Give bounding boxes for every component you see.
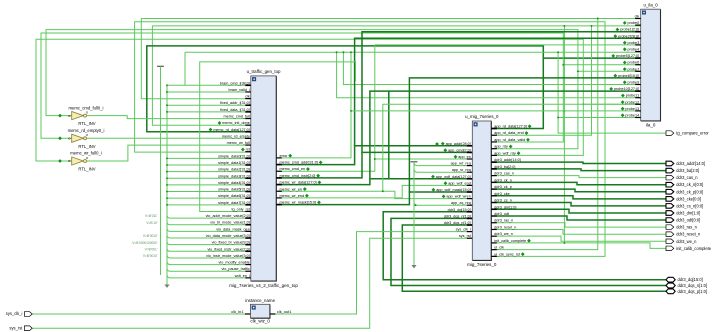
svg-text:memc_cmd_full: memc_cmd_full xyxy=(224,115,250,119)
wire traffic input row 17 xyxy=(167,197,245,199)
svg-text:vio_instr_mode_value[3:0]: vio_instr_mode_value[3:0] xyxy=(206,254,250,258)
svg-text:V=B’0000100000’: V=B’0000100000’ xyxy=(132,241,158,245)
input port sys_clk_i xyxy=(24,312,32,317)
svg-text:V=B’0010’: V=B’0010’ xyxy=(143,254,158,258)
wire traffic input row 25 xyxy=(167,248,170,251)
output port ddr3_cs_n[0:0] xyxy=(666,204,674,209)
pin mig.sys_rst xyxy=(467,237,473,239)
pin mig.app_rd_data_valid xyxy=(491,141,497,143)
pin traffic.simple_data2[31:0] xyxy=(245,171,251,173)
wire net ui_clk_sync_rst: mig -> top -> traffic.rst, branch probe14 xyxy=(135,22,605,257)
svg-text:memc_wr_data[127:0]: memc_wr_data[127:0] xyxy=(280,181,317,185)
output port ddr3_cas_n xyxy=(666,175,674,180)
svg-text:probe4: probe4 xyxy=(628,48,640,52)
pin mig.ddr3_odt xyxy=(491,215,497,217)
wire ddr3 output 3 xyxy=(491,182,666,184)
svg-text:app_wdf_data[127:0]: app_wdf_data[127:0] xyxy=(436,175,471,179)
pin mig.app_wdf_data[127:0] xyxy=(467,178,473,180)
output port tg_compare_error xyxy=(666,131,674,136)
svg-text:app_cmd[2:0]: app_cmd[2:0] xyxy=(448,148,471,152)
wire drop riser to probe11 xyxy=(337,52,641,97)
svg-text:probe7: probe7 xyxy=(628,67,640,71)
svg-text:bram_valid_i: bram_valid_i xyxy=(229,88,250,92)
svg-text:ui_clk_sync_rst: ui_clk_sync_rst xyxy=(494,252,521,256)
pin mig.app_wdf_mask[15:0] xyxy=(467,191,473,193)
pin traffic.memc_wr_mask[15:0] xyxy=(276,204,282,206)
pin ila.probe2[28:0] xyxy=(635,37,641,39)
pin mig.ddr3_dq[15:0] xyxy=(467,211,473,213)
wire net memc_cmd_instr bus -> app_cmd, probe1 xyxy=(276,32,640,178)
svg-text:app_wdf_rdy: app_wdf_rdy xyxy=(494,151,516,155)
pin traffic.vio_bl_mode_value[1:0] xyxy=(245,224,251,226)
wire net memc_wr_mask bus -> app_wdf_mask, probe8 xyxy=(276,78,640,205)
wire net memc_wr_data bus -> app_wdf_data, probe10 xyxy=(276,91,640,184)
pin mig.ui_clk xyxy=(491,249,497,251)
svg-text:ddr3_cas_n: ddr3_cas_n xyxy=(494,172,514,176)
inverter RTL_INV memc_cmd_full0_i xyxy=(72,112,84,120)
pin traffic.memc_init_done xyxy=(245,124,251,126)
tie-off trunk for app_ref_req/app_sr_req/app_zq_req xyxy=(411,161,418,163)
tie-off arrow below trunk xyxy=(164,285,169,288)
svg-text:u_mig_7series_0: u_mig_7series_0 xyxy=(465,114,499,119)
svg-text:probe2[28:0]: probe2[28:0] xyxy=(618,34,639,38)
pin mig.app_rd_data_end xyxy=(491,134,497,136)
svg-text:ddr3_cke: ddr3_cke xyxy=(494,192,509,196)
wire stub drop at left end of error row xyxy=(184,52,186,85)
pin traffic.vio_instr_mode_value[3:0] xyxy=(245,257,251,259)
wire traffic input row 21 xyxy=(167,222,170,225)
svg-text:bram_cmd_i[38:0]: bram_cmd_i[38:0] xyxy=(220,81,250,85)
svg-text:memc_cmd_en: memc_cmd_en xyxy=(280,167,306,171)
wire ddr3 output 1 xyxy=(491,169,666,171)
wire riser to tg_compare_error and probe14 xyxy=(558,52,666,133)
output port ddr3_dm[1:0] xyxy=(666,211,674,216)
svg-text:ddr3_cke[0:0]: ddr3_cke[0:0] xyxy=(676,196,701,201)
pin mig.app_sr_req xyxy=(467,171,473,173)
svg-text:vio_modify_enable: vio_modify_enable xyxy=(219,261,250,265)
pin mig.app_cmd[2:0] xyxy=(467,151,473,153)
wire ddr3 output 2 xyxy=(491,176,666,178)
wire traffic input row 16 xyxy=(167,191,245,193)
svg-text:init_calib_complete: init_calib_complete xyxy=(494,239,526,243)
svg-text:app_wdf_wren: app_wdf_wren xyxy=(446,195,470,199)
wire net memc_cmd_addr bus -> app_addr, probe2 xyxy=(276,38,640,164)
svg-text:u_traffic_gen_top: u_traffic_gen_top xyxy=(247,69,281,74)
svg-text:ddr3_reset_n: ddr3_reset_n xyxy=(494,225,516,229)
inout port ddr3_dqs_n[1:0] xyxy=(666,283,675,288)
wire net sys_rst port -> mig.sys_rst xyxy=(32,238,472,328)
pin ila.probe13 xyxy=(635,110,641,112)
inout port ddr3_dqs_p[1:0] xyxy=(666,289,675,294)
pin traffic.memc_cmd_instr[2:0] xyxy=(276,177,282,179)
wire traffic input row 3 xyxy=(167,104,245,106)
svg-text:probe3: probe3 xyxy=(628,41,640,45)
input port sys_rst xyxy=(24,326,32,331)
svg-text:ddr3_cs_n: ddr3_cs_n xyxy=(494,199,512,203)
pin mig.ddr3_ras_n xyxy=(491,222,497,224)
output port ddr3_ck_n[0:0] xyxy=(666,182,674,187)
svg-text:ddr3_ck_p[0:0]: ddr3_ck_p[0:0] xyxy=(676,189,703,194)
wire inverter1 output -> traffic.memc_cmd_full xyxy=(87,116,251,119)
pin mig.app_zq_req xyxy=(467,204,473,206)
svg-text:ddr3_dm[1:0]: ddr3_dm[1:0] xyxy=(676,210,700,215)
wire traffic input row 28 xyxy=(167,268,170,271)
svg-text:ddr3_addr[14:0]: ddr3_addr[14:0] xyxy=(676,161,705,166)
wire net clk_out1 -> mig.sys_clk_i xyxy=(274,232,472,314)
wire traffic input row 24 xyxy=(167,242,170,245)
block u_ila_0 body xyxy=(641,9,661,121)
block u_ila_0 icon xyxy=(642,11,646,15)
svg-text:tg_compare_error: tg_compare_error xyxy=(676,131,709,136)
svg-text:app_ref_req: app_ref_req xyxy=(451,162,471,166)
svg-text:memc_wr_end: memc_wr_end xyxy=(280,194,305,198)
pin traffic.memc_rd_data[127:0] xyxy=(245,131,251,133)
svg-text:sys_clk_i: sys_clk_i xyxy=(6,311,23,316)
svg-text:vio_fixed_bl_value[9:0]: vio_fixed_bl_value[9:0] xyxy=(212,241,250,245)
svg-text:memc_wr_full: memc_wr_full xyxy=(227,141,250,145)
svg-text:ddr3_dqs_n[1:0]: ddr3_dqs_n[1:0] xyxy=(678,283,708,288)
svg-text:vio_addr_mode_value[2:0]: vio_addr_mode_value[2:0] xyxy=(206,214,250,218)
pin traffic.memc_cmd_addr[31:0] xyxy=(276,164,282,166)
svg-text:ddr3_cs_n[0:0]: ddr3_cs_n[0:0] xyxy=(676,203,703,208)
pin ila.probe0 xyxy=(635,24,641,26)
pin traffic.error xyxy=(276,157,282,159)
pin mig.app_wdf_rdy xyxy=(491,154,497,156)
pin mig.ddr3_addr[14:0] xyxy=(491,161,497,163)
svg-text:ddr3_ck_n: ddr3_ck_n xyxy=(494,178,512,182)
svg-text:I0: I0 xyxy=(68,114,71,118)
block u_traffic_gen_top body xyxy=(251,76,276,281)
pin traffic.simple_data0[31:0] xyxy=(245,157,251,159)
svg-text:clk: clk xyxy=(245,95,250,99)
wire net sys_clk_i port -> clk_wiz.clk_in1 xyxy=(32,313,246,315)
pin traffic.simple_data3[31:0] xyxy=(245,177,251,179)
tie-off constant trunk left of traffic block xyxy=(157,65,164,67)
svg-text:probe6: probe6 xyxy=(628,61,640,65)
pin mig.ddr3_reset_n xyxy=(491,228,497,230)
svg-text:I0: I0 xyxy=(68,137,71,141)
wire net ddr3_dqs_n bus -> inout port xyxy=(391,218,668,285)
pin traffic.simple_data5[31:0] xyxy=(245,191,251,193)
output port ddr3_ck_p[0:0] xyxy=(666,189,674,194)
output port ddr3_ba[2:0] xyxy=(666,168,674,173)
pin traffic.memc_wr_full xyxy=(245,144,251,146)
svg-text:memc_wr_full0_i: memc_wr_full0_i xyxy=(70,151,101,156)
svg-text:app_wdf_end: app_wdf_end xyxy=(448,181,471,185)
wire traffic input row 4 xyxy=(167,111,245,113)
svg-text:vio_data_mask_gen: vio_data_mask_gen xyxy=(216,227,250,231)
wire net memc_wr_end -> app_wdf_end, probe11 xyxy=(276,185,472,198)
svg-text:vio_pause_traffic: vio_pause_traffic xyxy=(222,267,250,271)
pin traffic.vio_data_mode_value[3:0] xyxy=(245,237,251,239)
svg-text:app_rd_data_end: app_rd_data_end xyxy=(494,131,523,135)
svg-text:u_ila_0: u_ila_0 xyxy=(644,2,659,7)
wire net app_wdf_rdy -> inverter3 input, probe12 xyxy=(36,39,583,161)
pin traffic.memc_wr_data[127:0] xyxy=(276,184,282,186)
pin ila.probe5[127:0] xyxy=(635,57,641,59)
pin traffic.bram_valid_i xyxy=(245,91,251,93)
block instance_name icon xyxy=(252,306,256,310)
svg-text:V=B’011’: V=B’011’ xyxy=(145,214,158,218)
pin traffic.fixed_data_i[31:0] xyxy=(245,111,251,113)
wire traffic input row 14 xyxy=(167,177,245,179)
pin mig.app_rdy xyxy=(491,148,497,150)
svg-text:ddr3_dq[15:0]: ddr3_dq[15:0] xyxy=(448,208,471,212)
pin mig.app_en xyxy=(467,158,473,160)
pin mig.ddr3_cke xyxy=(491,195,497,197)
pin ila.probe3 xyxy=(635,44,641,46)
svg-text:app_rd_data[127:0]: app_rd_data[127:0] xyxy=(494,125,527,129)
wire traffic input row 26 xyxy=(167,255,170,258)
svg-text:memc_wr_en: memc_wr_en xyxy=(280,187,303,191)
pin traffic.vio_addr_mode_value[2:0] xyxy=(245,217,251,219)
pin traffic.vio_modify_enable xyxy=(245,264,251,266)
tie-off arrow below mig trunk xyxy=(411,265,416,268)
pin mig.ddr3_dm[1:0] xyxy=(491,208,497,210)
pin ila.probe8[15:0] xyxy=(635,77,641,79)
pin mig.app_rd_data[127:0] xyxy=(491,128,497,130)
pin mig.init_calib_complete xyxy=(491,242,497,244)
pin traffic.clk xyxy=(245,98,251,100)
svg-text:ddr3_ba[2:0]: ddr3_ba[2:0] xyxy=(676,168,699,173)
svg-text:ila_0: ila_0 xyxy=(646,122,656,127)
svg-text:probe10[127:0]: probe10[127:0] xyxy=(614,87,639,91)
wire ddr3 output 7 xyxy=(491,209,666,213)
svg-text:instance_name: instance_name xyxy=(245,298,275,303)
wire net app_rd_data bus: mig -> top -> traffic.memc_rd_data, probe5 xyxy=(147,46,544,132)
wire ddr3 output 4 xyxy=(491,189,666,192)
svg-text:probe1[2:0]: probe1[2:0] xyxy=(620,28,639,32)
svg-text:simple_data1[31:0]: simple_data1[31:0] xyxy=(218,161,250,165)
svg-text:clk_out1: clk_out1 xyxy=(277,309,292,314)
svg-text:memc_rd_empty: memc_rd_empty xyxy=(222,134,250,138)
wire traffic input row 1 xyxy=(167,91,245,93)
pin mig.app_wdf_end xyxy=(467,184,473,186)
pin mig.ddr3_ck_n xyxy=(491,181,497,183)
svg-text:ddr3_ras_n: ddr3_ras_n xyxy=(494,219,513,223)
wire ddr3 output 11 xyxy=(491,236,666,241)
wire net memc_wr_en -> app_wdf_wren, probe12 xyxy=(276,191,472,198)
svg-text:app_sr_req: app_sr_req xyxy=(452,168,471,172)
svg-text:ddr3_ras_n: ddr3_ras_n xyxy=(676,225,697,230)
svg-text:ddr3_dqs_p[1:0]: ddr3_dqs_p[1:0] xyxy=(678,289,708,294)
wire ddr3 output 10 xyxy=(491,229,666,234)
wire branch riser app_wdf_data xyxy=(388,91,390,179)
pin traffic.memc_cmd_full xyxy=(245,118,251,120)
wire net memc_cmd_en -> app_en, probe3 xyxy=(276,45,640,171)
wire traffic input row 20 xyxy=(167,215,170,218)
wire net ui_clk: mig.ui_clk -> top -> traffic.clk and ila.clk xyxy=(141,19,598,250)
pin traffic.wdt_en_i xyxy=(245,277,251,279)
svg-text:simple_data3[31:0]: simple_data3[31:0] xyxy=(218,174,250,178)
svg-text:error: error xyxy=(280,154,289,158)
svg-text:tg_only_rst: tg_only_rst xyxy=(231,207,250,211)
block u_mig_7series_0 icon xyxy=(474,123,478,127)
wire traffic input row 15 xyxy=(167,184,245,186)
svg-text:wdt_en_i: wdt_en_i xyxy=(235,274,250,278)
svg-text:ddr3_ba[2:0]: ddr3_ba[2:0] xyxy=(494,165,515,169)
svg-text:ddr3_cas_n: ddr3_cas_n xyxy=(676,175,698,180)
svg-text:ddr3_dm[1:0]: ddr3_dm[1:0] xyxy=(494,205,516,209)
svg-text:simple_data7[31:0]: simple_data7[31:0] xyxy=(218,201,250,205)
pin traffic.memc_wr_end xyxy=(276,197,282,199)
pin clk_wiz.clk_out1 xyxy=(270,313,276,315)
pin mig.app_addr[28:0] xyxy=(467,145,473,147)
pin mig.ddr3_cs_n xyxy=(491,202,497,204)
pin clk_wiz.clk_in1 xyxy=(245,313,251,315)
pin mig.sys_clk_i xyxy=(467,231,473,233)
svg-text:memc_init_done: memc_init_done xyxy=(222,121,250,125)
wire net ddr3_dqs_p bus -> inout port xyxy=(402,225,668,291)
svg-text:memc_cmd_full0_i: memc_cmd_full0_i xyxy=(69,105,104,110)
pin traffic.simple_data6[31:0] xyxy=(245,197,251,199)
svg-text:mig_7series_0: mig_7series_0 xyxy=(467,262,497,267)
pin ila.probe1[2:0] xyxy=(635,31,641,33)
svg-text:sys_rst: sys_rst xyxy=(459,234,472,238)
wire net app_rd_data_end -> probe0 xyxy=(491,26,591,135)
pin mig.ddr3_dqs_p[1:0] xyxy=(467,224,473,226)
wire traffic input row 22 xyxy=(167,228,170,231)
pin traffic.simple_data7[31:0] xyxy=(245,204,251,206)
pin traffic.vio_fixed_instr_value[2:0] xyxy=(245,250,251,252)
pin traffic.vio_pause_traffic xyxy=(245,270,251,272)
svg-text:probe11: probe11 xyxy=(626,94,639,98)
svg-text:RTL_INV: RTL_INV xyxy=(78,167,95,172)
inverter RTL_INV memc_wr_full0_i xyxy=(72,157,84,165)
pin ila.probe4 xyxy=(635,51,641,53)
output port init_calib_complete xyxy=(666,246,674,251)
wire traffic input row 13 xyxy=(167,171,245,173)
svg-text:simple_data4[31:0]: simple_data4[31:0] xyxy=(218,181,250,185)
block instance_name body xyxy=(250,304,270,318)
pin traffic.simple_data4[31:0] xyxy=(245,184,251,186)
wire traffic input row 0 xyxy=(167,84,245,86)
block u_mig_7series_0 body xyxy=(472,121,491,260)
svg-text:ui_clk: ui_clk xyxy=(494,246,504,250)
pin traffic.memc_rd_empty xyxy=(245,137,251,139)
wire net init_calib_complete: mig -> port, traffic.memc_init_done, probe13 xyxy=(491,243,666,248)
wire traffic input row 11 xyxy=(167,157,245,159)
pin ila.probe7 xyxy=(635,70,641,72)
svg-text:probe12: probe12 xyxy=(625,100,639,104)
pin ila.clk xyxy=(635,18,641,20)
wire traffic input row 23 xyxy=(167,235,170,238)
output port ddr3_addr[14:0] xyxy=(666,161,674,166)
svg-text:app_addr[28:0]: app_addr[28:0] xyxy=(446,142,471,146)
wire net app_rdy -> inverter1 input, probe7 xyxy=(46,30,578,149)
svg-text:simple_data0[31:0]: simple_data0[31:0] xyxy=(218,154,250,158)
wire traffic input row 18 xyxy=(167,204,245,206)
wire ddr3 output 6 xyxy=(491,203,666,206)
svg-text:ddr3_ck_p: ddr3_ck_p xyxy=(494,185,512,189)
svg-text:probe13: probe13 xyxy=(625,107,639,111)
svg-text:RTL_INV: RTL_INV xyxy=(78,144,95,149)
output port ddr3_we_n xyxy=(666,239,674,244)
svg-text:fixed_addr_i[31:0]: fixed_addr_i[31:0] xyxy=(220,101,250,105)
svg-text:memc_rd_empty0_i: memc_rd_empty0_i xyxy=(68,128,105,133)
svg-text:vio_fixed_instr_value[2:0]: vio_fixed_instr_value[2:0] xyxy=(207,247,249,251)
wire inverter3 output -> traffic.memc_wr_full xyxy=(87,145,251,161)
svg-text:app_wdf_mask[15:0]: app_wdf_mask[15:0] xyxy=(436,188,471,192)
pin traffic.simple_data1[31:0] xyxy=(245,164,251,166)
pin traffic.memc_cmd_en xyxy=(276,170,282,172)
pin mig.ddr3_we_n xyxy=(491,235,497,237)
pin mig.app_wdf_wren xyxy=(467,198,473,200)
wire traffic input row 29 xyxy=(167,275,170,278)
svg-text:ddr3_dqs_p[1:0]: ddr3_dqs_p[1:0] xyxy=(444,221,471,225)
pin ila.probe12 xyxy=(635,103,641,105)
svg-text:ddr3_ck_n[0:0]: ddr3_ck_n[0:0] xyxy=(676,182,703,187)
svg-text:probe14: probe14 xyxy=(625,114,639,118)
svg-text:V=B’10’: V=B’10’ xyxy=(146,221,157,225)
svg-text:memc_wr_mask[15:0]: memc_wr_mask[15:0] xyxy=(280,201,317,205)
inverter RTL_INV memc_rd_empty0_i xyxy=(72,134,84,142)
svg-text:probe5[127:0]: probe5[127:0] xyxy=(616,54,639,58)
svg-text:memc_rd_data[127:0]: memc_rd_data[127:0] xyxy=(213,128,249,132)
pin traffic.rst xyxy=(245,151,251,153)
svg-text:probe0: probe0 xyxy=(628,21,640,25)
svg-text:app_en: app_en xyxy=(458,155,471,159)
svg-text:ddr3_odt: ddr3_odt xyxy=(494,212,510,216)
output port ddr3_reset_n xyxy=(666,232,674,237)
svg-text:probe9: probe9 xyxy=(628,81,640,85)
pin mig.ddr3_cas_n xyxy=(491,175,497,177)
svg-text:fixed_data_i[31:0]: fixed_data_i[31:0] xyxy=(220,108,250,112)
svg-text:probe8[15:0]: probe8[15:0] xyxy=(618,74,639,78)
wire inverter2 output -> traffic.memc_rd_empty xyxy=(87,137,251,139)
svg-text:vio_bl_mode_value[1:0]: vio_bl_mode_value[1:0] xyxy=(210,221,250,225)
wire net ddr3_dq bus -> inout port xyxy=(383,212,668,280)
svg-text:simple_data5[31:0]: simple_data5[31:0] xyxy=(218,188,250,192)
output port ddr3_cke[0:0] xyxy=(666,197,674,202)
svg-text:memc_cmd_instr[2:0]: memc_cmd_instr[2:0] xyxy=(280,174,316,178)
output port ddr3_odt[0:0] xyxy=(666,218,674,223)
wire ddr3 output 8 xyxy=(491,216,666,220)
inout port ddr3_dq[15:0] xyxy=(666,277,675,282)
wire net error: traffic.error -> probe4 and tg_compare_error port xyxy=(185,51,641,53)
svg-text:init_calib_complete: init_calib_complete xyxy=(676,246,712,251)
pin traffic.bram_cmd_i[38:0] xyxy=(245,84,251,86)
wire drop riser to probe9 xyxy=(343,52,640,84)
pin ila.probe14 xyxy=(635,117,641,119)
svg-text:sys_clk_i: sys_clk_i xyxy=(456,228,471,232)
svg-text:V=B’0010’: V=B’0010’ xyxy=(143,234,158,238)
pin ila.probe10[127:0] xyxy=(635,90,641,92)
svg-text:V=B’001’: V=B’001’ xyxy=(145,247,158,251)
pin ila.probe6 xyxy=(635,64,641,66)
pin mig.app_ref_req xyxy=(467,165,473,167)
wire ddr3 output 0 xyxy=(491,162,666,163)
svg-text:mig_7series_v4_2_traffic_gen_t: mig_7series_v4_2_traffic_gen_top xyxy=(229,283,298,288)
svg-text:ddr3_addr[14:0]: ddr3_addr[14:0] xyxy=(494,158,520,162)
svg-text:ddr3_we_n: ddr3_we_n xyxy=(676,239,697,244)
pin traffic.vio_fixed_bl_value[9:0] xyxy=(245,244,251,246)
pin ila.probe11 xyxy=(635,97,641,99)
svg-text:ddr3_we_n: ddr3_we_n xyxy=(494,232,513,236)
pin ila.probe9 xyxy=(635,84,641,86)
svg-text:clk_in1: clk_in1 xyxy=(231,309,243,314)
pin mig.ddr3_ck_p xyxy=(491,188,497,190)
svg-text:sys_rst: sys_rst xyxy=(9,325,23,330)
wire ddr3 output 5 xyxy=(491,196,666,199)
svg-text:ddr3_dq[15:0]: ddr3_dq[15:0] xyxy=(678,277,703,282)
wire net tg_only_rst source xyxy=(200,62,356,212)
wire net app_rd_data_valid -> inverter2 input, probe6 xyxy=(41,33,563,142)
svg-text:ddr3_dqs_n[1:0]: ddr3_dqs_n[1:0] xyxy=(444,214,471,218)
svg-text:clk_wiz_0: clk_wiz_0 xyxy=(250,319,270,324)
svg-text:ddr3_reset_n: ddr3_reset_n xyxy=(676,232,701,237)
wire traffic input row 12 xyxy=(167,164,245,166)
